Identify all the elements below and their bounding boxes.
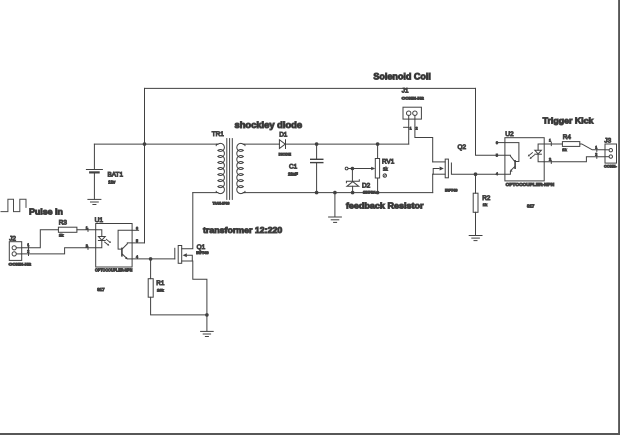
pin 1 J3 [596,148,598,151]
node ground drop junction [333,191,337,195]
wire top supply rail [145,87,476,89]
svg-text:J2: J2 [9,235,16,242]
connector J2 [9,242,21,261]
svg-text:1: 1 [595,146,597,150]
U2 collector [505,155,515,161]
pulse waveform symbol [1,199,26,211]
transformer TR1 [193,139,280,200]
U1 light arrows [105,239,111,245]
Q1 source [182,261,207,331]
svg-text:Trigger Kick: Trigger Kick [543,116,594,126]
svg-text:transformer 12:220: transformer 12:220 [203,225,282,235]
svg-text:Q1: Q1 [197,244,206,251]
svg-text:CONN-H2: CONN-H2 [402,95,425,100]
svg-text:2: 2 [27,250,29,254]
U1 phototransistor base lead [118,230,132,249]
svg-text:1k: 1k [383,166,388,171]
svg-text:IRF740: IRF740 [196,251,208,255]
Q2 gate lead [451,163,475,174]
wire D1 cathode to J1 rail [286,143,409,145]
ground (Q1 source) [201,331,214,336]
wire feedback rail (secondary bottom) [243,192,432,194]
wire ground drop [334,193,336,217]
op-amp U1 optocoupler box [96,224,132,268]
U2 LED cathode lead to pin2 [538,154,544,162]
svg-text:1: 1 [549,139,551,143]
pin 6 U2 stub [499,142,505,144]
svg-text:1k: 1k [562,147,567,152]
svg-text:J1: J1 [402,87,409,94]
svg-text:CONN-: CONN- [604,164,617,169]
Q1 substrate arrow [183,253,187,257]
TR1 core [226,139,228,200]
border right edge [618,0,620,435]
svg-text:R2: R2 [482,195,491,202]
node battery rail junction [143,142,147,146]
svg-text:Q2: Q2 [458,144,467,151]
svg-text:5: 5 [136,239,138,243]
wire R4 to J3 pin1 diagonal [580,144,605,150]
op-amp U2 optocoupler box [505,138,544,181]
svg-text:R4: R4 [563,134,572,141]
TR1 primary bottom lead [193,192,217,194]
U2 LED diode [535,150,542,154]
diode D2 zener [346,169,359,193]
svg-text:J3: J3 [604,138,611,145]
TR1 primary winding [218,143,225,193]
ground (feedback rail) [329,217,342,222]
node RV1 top junction [376,142,380,146]
svg-text:D2: D2 [362,183,371,190]
Q1 gate lead [174,248,176,259]
svg-text:1N4742A: 1N4742A [363,191,376,195]
svg-text:4: 4 [496,172,498,176]
RV1 wiper arrow [345,167,348,170]
svg-text:4: 4 [136,255,138,259]
svg-text:IRF740: IRF740 [445,188,457,192]
U1 transistor base bar [121,248,123,255]
node RV1 bottom junction [376,191,380,195]
potentiometer RV1 [345,144,379,193]
resistor R1 [148,279,153,298]
wire left vertical (battery node to U1 pin5) [144,88,146,243]
pin 2 U2 wire [544,157,605,162]
wire gate node to U2 pin4 [476,173,505,175]
node Q1 source / R1 / ground junction [205,313,209,317]
node C1 bottom junction [315,191,319,195]
svg-text:12v: 12v [108,179,116,184]
svg-text:Solenoid Coil: Solenoid Coil [373,72,431,82]
TR1 secondary bottom lead [243,192,245,194]
Q2 substrate arrow [433,169,439,175]
Q1 channel [178,246,182,264]
node D2 wiper junction [351,167,355,171]
pin 1 U1 [87,228,89,231]
pin 5 U1 wire to supply [132,242,144,244]
svg-text:Pulse In: Pulse In [29,207,63,217]
svg-text:6: 6 [496,141,498,145]
pin 2 J3 [596,155,598,158]
connector J3 [605,144,617,163]
svg-text:10k: 10k [157,288,164,293]
svg-text:CONN-H2: CONN-H2 [9,261,32,266]
svg-text:D1: D1 [279,132,288,139]
node U1 pin4 / R1 junction [149,257,153,261]
transistor Q1 [175,193,207,332]
svg-text:U2: U2 [505,131,514,138]
wire J1 pin2 to Q2 drain [415,119,433,162]
svg-text:2: 2 [416,126,418,130]
U1 LED diode [98,237,105,241]
pin 1 U2 wire to R4 [544,143,562,145]
U2 light arrows [528,153,534,159]
RV1 state symbol [383,174,386,177]
wire R1 bottom [151,297,207,315]
pin 4 U1 wire to gate node [132,258,175,260]
svg-text:R1: R1 [156,280,165,287]
wire J1 pin1 down to rail [408,119,410,144]
wire J2 pin2 to U1 pin2 [22,248,96,254]
TR1 secondary winding [237,143,244,193]
TR1 primary top lead [216,143,217,145]
wire R1 top [150,259,152,279]
pin 6 U1 stub [132,229,139,231]
diode D1 [279,140,285,149]
svg-text:2: 2 [86,244,88,248]
svg-text:RV1: RV1 [382,159,395,166]
U1 LED cathode lead to pin2 [96,241,102,248]
svg-text:817: 817 [527,203,535,208]
svg-text:22uF: 22uF [288,171,298,176]
pin 1 J2 [28,246,30,249]
wire R3 to U1 pin1 [77,229,96,231]
wire R2 top [475,174,477,193]
resistor R2 [473,193,478,212]
wire R2 bottom [475,212,477,235]
svg-text:1: 1 [86,226,88,230]
ground (R2) [469,236,482,241]
Q2 channel [445,159,448,178]
svg-text:2: 2 [595,153,597,157]
capacitor C1 [311,144,323,193]
svg-text:2: 2 [549,158,551,162]
svg-text:DIODE: DIODE [279,152,292,157]
U2 phototransistor base lead [505,143,519,162]
svg-text:1k: 1k [483,202,488,207]
svg-text:1: 1 [410,126,412,130]
svg-text:1k: 1k [59,233,64,238]
U1 collector [123,243,133,249]
resistor R4 [562,142,579,147]
border bottom edge [0,433,620,435]
svg-text:C1: C1 [289,164,298,171]
wire battery positive rail [94,143,216,145]
Q2 source [433,173,446,175]
svg-text:TR1: TR1 [212,131,225,138]
U2 transistor base bar [514,161,516,168]
resistor R3 [58,227,77,232]
node C1 top junction [315,142,319,146]
TR1 secondary top lead [243,143,279,145]
svg-text:U1: U1 [95,217,104,224]
wire supply drop to U2 pin5 [476,88,505,155]
svg-text:shockley diode: shockley diode [235,120,303,130]
U1 emitter with arrow [123,254,133,259]
svg-text:5: 5 [496,154,498,158]
svg-text:R3: R3 [59,220,68,227]
Q2 drain stub [433,161,446,163]
svg-text:OPTOCOUPLER-NPN: OPTOCOUPLER-NPN [95,268,133,273]
U2 emitter with arrow [505,167,515,174]
svg-text:TRAN-2P2S: TRAN-2P2S [213,201,230,206]
ground (battery) [88,199,101,204]
svg-text:feedback Resistor: feedback Resistor [346,200,424,210]
node R2 junction [474,172,478,176]
U2 LED anode lead [538,144,544,150]
connector J1 [403,107,421,119]
battery BAT1 [86,144,102,199]
svg-text:OPTOCOUPLER-NPN: OPTOCOUPLER-NPN [506,182,555,187]
svg-text:1: 1 [27,243,29,247]
svg-text:817: 817 [97,287,105,292]
pin 2 J2 [28,252,30,255]
wire J2 pin1 to R3 [22,230,59,248]
U1 LED anode lead [96,230,102,237]
svg-text:BAT1: BAT1 [108,172,124,179]
Q1 drain stub [182,193,193,249]
svg-text:6: 6 [136,226,138,230]
node D2 bottom junction [351,191,355,195]
pin 2 U1 [87,246,89,249]
transistor Q2 [433,159,476,193]
